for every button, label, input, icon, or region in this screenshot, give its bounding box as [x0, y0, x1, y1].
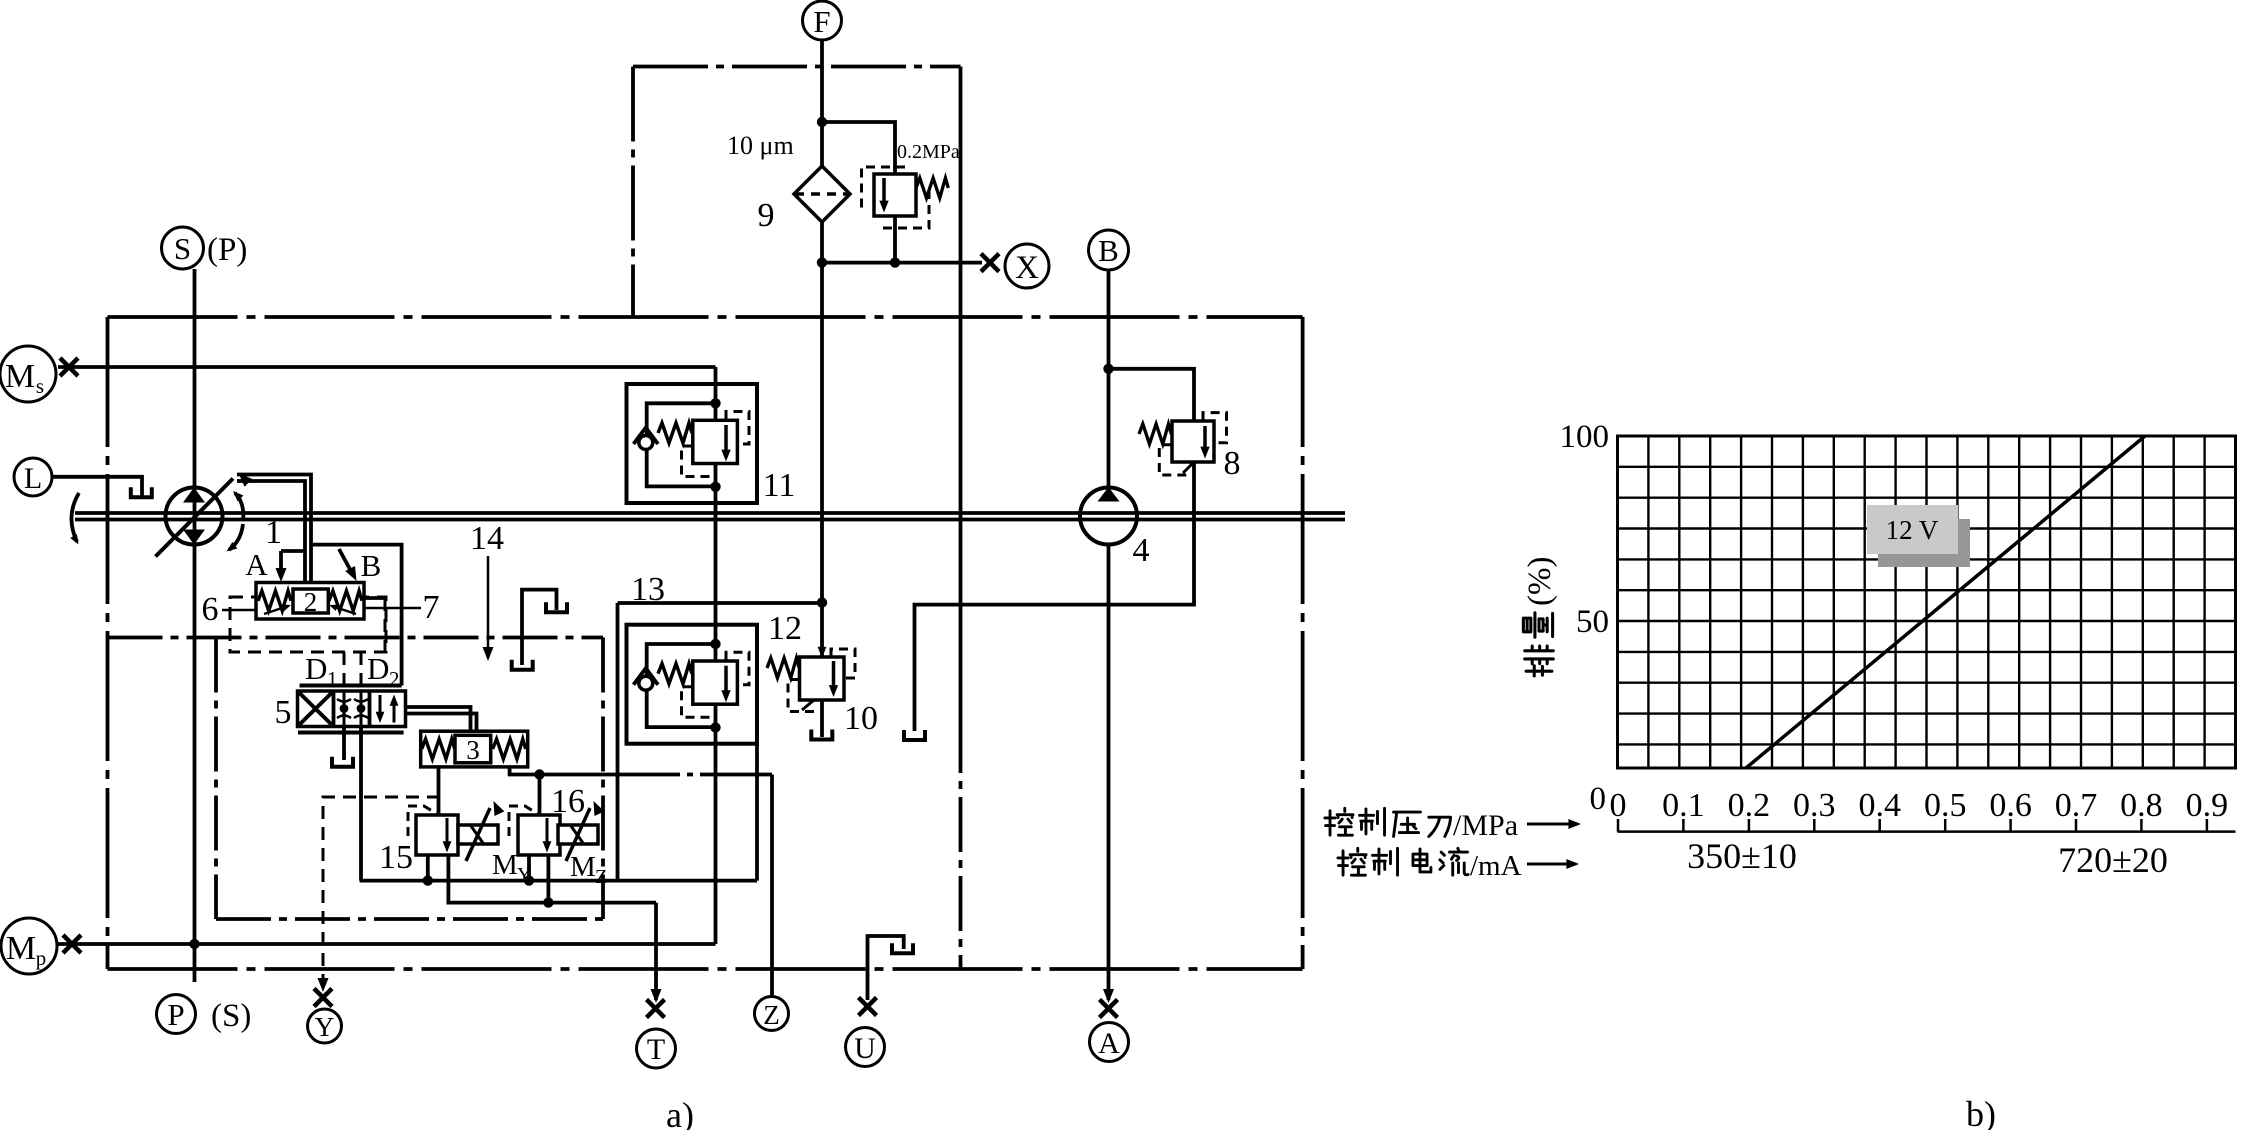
svg-text:s: s — [36, 374, 44, 398]
valve 10 (relief valve) — [767, 647, 855, 740]
svg-text:50: 50 — [1576, 604, 1609, 640]
wire: L drain line — [53, 477, 142, 497]
chart b: y axis title (rotated) — [1522, 557, 1558, 676]
wire: valve 10 to tank — [820, 700, 824, 737]
dashed pilot drop from valve 2 — [384, 598, 387, 652]
svg-text:U: U — [854, 1032, 876, 1065]
junction on B line — [1103, 364, 1113, 374]
svg-text:13: 13 — [631, 571, 665, 608]
wire: T port line — [654, 903, 658, 1000]
svg-text:1: 1 — [265, 514, 282, 551]
svg-text:M: M — [570, 851, 596, 883]
wire: box 13 right edge — [755, 742, 759, 881]
wire: 0.2MPa valve bottom to X line — [893, 216, 897, 263]
wire: valve 2 A-side branch — [281, 549, 305, 553]
svg-text:/mA: /mA — [1470, 850, 1522, 882]
svg-text:0.3: 0.3 — [1793, 787, 1836, 824]
valve 3 (pilot operated compensator) — [421, 731, 528, 767]
svg-text:0.8: 0.8 — [2120, 787, 2163, 824]
svg-text:F: F — [813, 4, 830, 39]
wire: valve 8 inlet branch — [1109, 369, 1195, 421]
wire: valve 15 left drain — [426, 855, 430, 881]
pressure reducing valve 0.2MPa — [862, 167, 949, 228]
wire: branch F to 0.2MPa valve top — [822, 122, 895, 174]
svg-text:P: P — [167, 997, 184, 1032]
chart b: grid — [1618, 436, 2236, 768]
svg-text:T: T — [647, 1033, 665, 1066]
chart b: control current axis title — [1338, 848, 1579, 882]
svg-text:4: 4 — [1133, 532, 1150, 569]
svg-text:0.4: 0.4 — [1858, 787, 1901, 824]
port S (P) — [162, 227, 248, 269]
svg-text:5: 5 — [275, 694, 292, 731]
drive shaft (double line) — [75, 511, 1345, 515]
svg-text:a): a) — [666, 1095, 694, 1130]
port B — [1089, 230, 1129, 270]
svg-text:/MPa: /MPa — [1453, 809, 1518, 842]
svg-text:p: p — [36, 946, 47, 970]
port A — [1090, 1023, 1129, 1062]
wire: sequence valve stack line (valves 11-12) — [714, 367, 718, 944]
port U — [846, 1028, 885, 1067]
junction valve 16 pilot feed — [534, 769, 544, 779]
svg-text:0: 0 — [1590, 781, 1607, 817]
arrowhead on A port line — [1103, 989, 1114, 1003]
svg-text:0.2MPa: 0.2MPa — [897, 141, 960, 163]
svg-text:D: D — [367, 651, 389, 686]
wire: valve 2 B-side branch over to housing — [311, 545, 402, 686]
wire: housing plate below valve 5 — [298, 731, 404, 735]
svg-text:11: 11 — [763, 467, 796, 504]
valve 16 (proportional reducing valve MZ) — [509, 799, 604, 861]
wire: valve 5 pilot double line to valve 3 — [406, 707, 471, 731]
closed test point Y — [314, 989, 332, 1007]
wire: U port line and tank — [868, 936, 904, 1000]
svg-text:X: X — [1015, 250, 1039, 286]
wire: box 13 left edge — [616, 603, 620, 881]
wire: F port line down to valve 10 — [820, 40, 824, 657]
svg-text:B: B — [1098, 233, 1119, 268]
svg-text:0.6: 0.6 — [1989, 787, 2032, 824]
wire: Z port line — [770, 775, 774, 997]
chart b: 12V label box with shadow — [1878, 519, 1970, 567]
dashed control box around valve 2 — [230, 597, 386, 652]
wire: valve 5 D2 side output down — [359, 727, 363, 881]
junction at filter out — [817, 257, 827, 267]
svg-text:10 μm: 10 μm — [727, 131, 794, 160]
svg-text:7: 7 — [423, 589, 440, 626]
svg-text:0.2: 0.2 — [1728, 787, 1771, 824]
pump 1 control feedback double line — [237, 475, 311, 584]
arrow B into valve 2 — [339, 549, 352, 573]
svg-text:3: 3 — [466, 735, 480, 765]
closed test point T — [647, 1000, 665, 1018]
svg-text:0: 0 — [1610, 787, 1627, 824]
svg-text:Y: Y — [517, 864, 531, 886]
wire: valve 8 drain to tank — [915, 462, 1195, 731]
wire: valve 16 feed — [538, 775, 542, 816]
closed test point on Ms line — [60, 358, 78, 376]
svg-text:B: B — [361, 548, 382, 583]
port Mp — [1, 918, 57, 974]
svg-text:0.1: 0.1 — [1662, 787, 1705, 824]
svg-text:Y: Y — [315, 1012, 335, 1042]
arrowhead on T port line — [651, 989, 662, 1003]
junction of Mp line and P line — [189, 939, 199, 949]
svg-text:14: 14 — [470, 520, 504, 557]
valve 2 (pressure compensator, spring centered) — [256, 583, 364, 620]
svg-text:(P): (P) — [207, 232, 247, 268]
wire: valve 15 right port to T rail — [448, 855, 656, 903]
port Ms — [0, 346, 56, 402]
valve 12 (pilot relief with check) — [627, 625, 758, 744]
junction pilot rail / F line — [817, 597, 827, 607]
valve 15 (proportional reducing valve MY) — [408, 799, 504, 861]
svg-text:Z: Z — [595, 866, 607, 888]
svg-text:6: 6 — [202, 591, 219, 628]
port P (S) — [157, 995, 252, 1035]
tank at valve 5 drain — [332, 757, 353, 767]
wire: S port line down to P — [193, 269, 197, 982]
svg-text:S: S — [174, 231, 191, 266]
wire: pump 4 to A port — [1107, 545, 1111, 1001]
wire: Y pilot line (dashed) — [323, 797, 440, 983]
valve 8 (relief valve) — [1139, 413, 1227, 475]
svg-text:15: 15 — [379, 839, 413, 876]
port L — [14, 458, 52, 496]
svg-text:8: 8 — [1224, 445, 1241, 482]
shaft rotation arrow — [70, 493, 82, 546]
dashed solenoid line D2 — [360, 652, 363, 689]
junction at 0.2MPa out — [890, 257, 900, 267]
junction valve 16 drain — [524, 875, 534, 885]
svg-text:L: L — [24, 462, 42, 495]
svg-text:100: 100 — [1560, 419, 1610, 455]
svg-text:(%): (%) — [1522, 557, 1558, 606]
chart b: characteristic line — [1746, 436, 2145, 768]
svg-text:2: 2 — [304, 587, 318, 617]
arrowhead on Y line — [318, 978, 329, 992]
svg-text:A: A — [245, 547, 268, 582]
svg-text:(S): (S) — [211, 998, 251, 1034]
svg-text:10: 10 — [844, 700, 878, 737]
svg-text:0.7: 0.7 — [2055, 787, 2098, 824]
port Y — [308, 1009, 342, 1043]
port Z — [755, 997, 789, 1031]
svg-text:b): b) — [1966, 1094, 1996, 1130]
wire: Mp gauge line — [57, 942, 716, 946]
svg-text:A: A — [1098, 1027, 1120, 1060]
svg-text:720±20: 720±20 — [2058, 840, 2168, 880]
svg-text:D: D — [305, 651, 327, 686]
junction at F-filter branch — [817, 117, 827, 127]
tank at U line — [892, 943, 913, 953]
svg-text:1: 1 — [327, 667, 338, 691]
wire: valve 16 right port — [547, 855, 551, 903]
junction valve 15 drain — [423, 875, 433, 885]
closed test point U — [859, 998, 877, 1016]
top sub-enclosure (filter block boundary) — [633, 67, 961, 318]
svg-text:Z: Z — [763, 1000, 780, 1030]
chart b: control pressure axis title — [1325, 808, 1581, 842]
closed test point X — [981, 254, 999, 272]
arrow A into valve 2 — [279, 551, 283, 572]
svg-text:M: M — [5, 358, 35, 395]
wire: Ms gauge line — [58, 365, 716, 369]
internal block separation line — [959, 317, 963, 969]
valve 11 (pilot relief with check) — [627, 384, 758, 503]
closed test point A — [1100, 1000, 1118, 1018]
svg-text:12: 12 — [768, 610, 802, 647]
wire: box 13 bottom rail — [360, 879, 757, 883]
wire: housing plate above valve 5 — [300, 684, 402, 688]
port T — [637, 1029, 676, 1068]
chart b: border emphasis — [1618, 436, 2236, 768]
main manifold enclosure (dash-dot boundary) — [108, 317, 1303, 969]
svg-text:12 V: 12 V — [1886, 515, 1939, 545]
svg-text:2: 2 — [389, 667, 400, 691]
label 14 with pointer arrow — [470, 520, 504, 661]
wire: valve 3 drain to Z — [510, 767, 658, 775]
dashed solenoid line D1 — [343, 652, 346, 689]
wire: B port line to pump 4 — [1107, 270, 1111, 488]
wire: valve 3 left drain to valve 15 — [437, 767, 441, 815]
svg-text:0.5: 0.5 — [1924, 787, 1967, 824]
svg-text:M: M — [492, 849, 518, 881]
vent tank symbol mid (subsystem 14) — [522, 590, 557, 665]
pump 1 (variable displacement, bidirectional) — [156, 469, 253, 556]
svg-text:350±10: 350±10 — [1687, 836, 1797, 876]
svg-text:M: M — [6, 930, 36, 967]
junction valve 16 right port on T rail — [543, 897, 553, 907]
svg-text:9: 9 — [758, 197, 775, 234]
port X — [1005, 244, 1049, 288]
filter 9 — [794, 166, 850, 222]
wire: valve 2 port 6 line — [222, 609, 293, 612]
wire: X pilot line — [822, 261, 982, 265]
chart b: current scale axis — [1618, 830, 2236, 833]
pump 4 (fixed displacement) — [1080, 487, 1137, 545]
tank at L drain — [131, 487, 152, 497]
port F — [803, 1, 842, 40]
closed test point on Mp line — [63, 935, 81, 953]
valve 5 (solenoid directional valve) — [298, 691, 406, 727]
subsystem 14 dash-dot boundary — [108, 638, 611, 920]
svg-text:0.9: 0.9 — [2186, 787, 2229, 824]
svg-text:16: 16 — [551, 783, 585, 820]
wire: valve 5 D1 side output to tank — [342, 727, 346, 761]
wire: valve 16 left drain — [527, 855, 531, 881]
wire: valve 2 port 7 line — [335, 607, 421, 610]
tank at valve 8 drain — [904, 730, 925, 740]
wire: box 13 pilot rail to F line — [618, 601, 823, 605]
wire: valve 2 right stub to pilot — [364, 596, 385, 600]
